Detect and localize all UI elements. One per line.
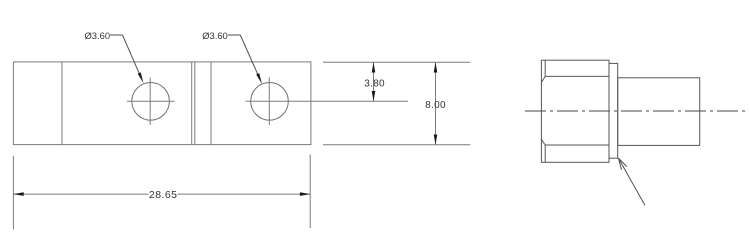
svg-text:8.00: 8.00	[425, 100, 446, 111]
hex head chamfer diagonal top	[541, 76, 545, 82]
leader 1 horizontal segment	[110, 34, 122, 36]
side view shaft	[618, 78, 700, 146]
dimension 3.80 down arrowhead	[372, 91, 376, 101]
hex head chamfer edge vertical top	[544, 60, 546, 76]
dimension 8.00 up arrowhead	[434, 62, 438, 72]
dimension 3.80 line	[373, 62, 375, 101]
hex head face line bottom	[545, 144, 609, 146]
front view body outline	[13, 62, 311, 145]
hex head chamfer edge vertical bottom	[544, 145, 546, 162]
svg-text:3.80: 3.80	[364, 78, 385, 89]
leader 2 diagonal line	[240, 35, 260, 79]
svg-text:28.65: 28.65	[149, 189, 178, 201]
dimension 28.65 right arrowhead	[300, 192, 310, 196]
hole circle 1	[132, 83, 170, 121]
hole 1 horizontal centerline	[127, 100, 175, 102]
side view hex head outline	[541, 60, 609, 162]
side view leader line	[619, 158, 646, 205]
svg-text:Ø3.60: Ø3.60	[202, 30, 228, 41]
leader 2 arrowhead	[256, 73, 262, 84]
hex head chamfer diagonal bottom	[541, 139, 545, 145]
hole 1 vertical centerline	[149, 78, 151, 126]
dimension 28.65 line right segment	[178, 193, 311, 195]
dimension 8.00 line	[435, 62, 437, 145]
top extension line	[323, 61, 470, 63]
leader 2 horizontal segment	[228, 34, 240, 36]
side view center line	[525, 110, 749, 112]
hole 2 horizontal centerline extended right	[246, 100, 409, 102]
hole 2 vertical centerline	[268, 78, 270, 126]
dimension 28.65 line left segment	[13, 193, 148, 195]
hex head face line top	[545, 75, 609, 77]
side view flange	[609, 63, 618, 158]
bottom extension line	[323, 144, 470, 146]
dimension 28.65 right extension line	[309, 155, 311, 229]
side view leader open arrowhead barb upper	[619, 158, 627, 166]
dimension 28.65 left extension line	[12, 156, 14, 230]
dimension 28.65 left arrowhead	[13, 192, 23, 196]
hole circle 2	[251, 83, 289, 121]
svg-text:Ø3.60: Ø3.60	[85, 30, 111, 41]
front view groove line 2	[194, 62, 196, 145]
front view step line right	[210, 62, 212, 145]
leader 1 diagonal line	[123, 35, 142, 79]
dimension 3.80 up arrowhead	[372, 62, 376, 72]
side view leader open arrowhead barb lower	[619, 158, 622, 170]
front view groove line 1	[191, 62, 193, 145]
front view left step line	[61, 62, 63, 145]
leader 1 arrowhead	[138, 72, 144, 83]
dimension 8.00 down arrowhead	[434, 135, 438, 145]
